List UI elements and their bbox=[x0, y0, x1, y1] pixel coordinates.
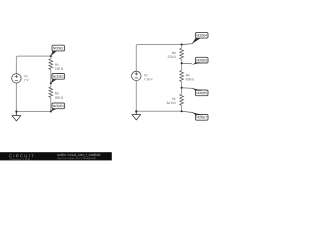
wire left chain vertical bbox=[50, 56, 52, 111]
junction dot NODE1 bbox=[50, 55, 52, 57]
V2 value label bbox=[144, 74, 153, 80]
resistor R1 bbox=[49, 59, 53, 70]
junction dot NODE2 bbox=[50, 82, 52, 84]
node NODE5 bbox=[182, 57, 208, 65]
junction dot right ground bbox=[135, 110, 137, 112]
voltage source V1 bbox=[12, 74, 21, 83]
node NODE3 bbox=[51, 103, 65, 112]
wire right loop top (V2 top to chain) bbox=[136, 45, 181, 72]
R1 value label bbox=[55, 64, 63, 70]
ground (left) bbox=[12, 112, 21, 122]
R5 value label bbox=[167, 98, 176, 104]
wire left loop bottom (V1 bottom to ground junction) bbox=[15, 83, 17, 116]
voltage source V2 bbox=[132, 71, 141, 80]
footer watermark bar bbox=[0, 152, 112, 160]
R2 value label bbox=[55, 92, 63, 98]
wire right loop bottom (V2 bottom to ground junction) bbox=[135, 81, 137, 115]
junction dot NODE7 bbox=[181, 110, 183, 112]
resistor R2 bbox=[49, 87, 53, 98]
resistor R5 bbox=[180, 94, 184, 105]
R3 value label bbox=[168, 52, 176, 58]
ground (right) bbox=[132, 111, 141, 120]
V1 value label bbox=[24, 75, 28, 81]
node NODE4 bbox=[182, 32, 208, 44]
junction dot left ground bbox=[15, 110, 17, 112]
junction dot NODE3 bbox=[50, 111, 52, 113]
junction dot NODE6 bbox=[181, 87, 183, 89]
wire right chain vertical bbox=[181, 45, 183, 112]
wire left loop top (V1 top to chain) bbox=[16, 56, 50, 74]
resistor R3 bbox=[180, 48, 184, 59]
wire right bottom horizontal bbox=[136, 110, 181, 112]
node NODE6 bbox=[182, 88, 208, 96]
wire left bottom horizontal bbox=[16, 111, 50, 113]
resistor R4 bbox=[180, 70, 184, 81]
node NODE7 bbox=[182, 111, 208, 120]
junction dot NODE4 bbox=[181, 44, 183, 46]
R4 value label bbox=[186, 74, 194, 80]
junction dot NODE5 bbox=[181, 62, 183, 64]
node NODE1 bbox=[51, 45, 65, 56]
node NODE2 bbox=[51, 74, 65, 84]
